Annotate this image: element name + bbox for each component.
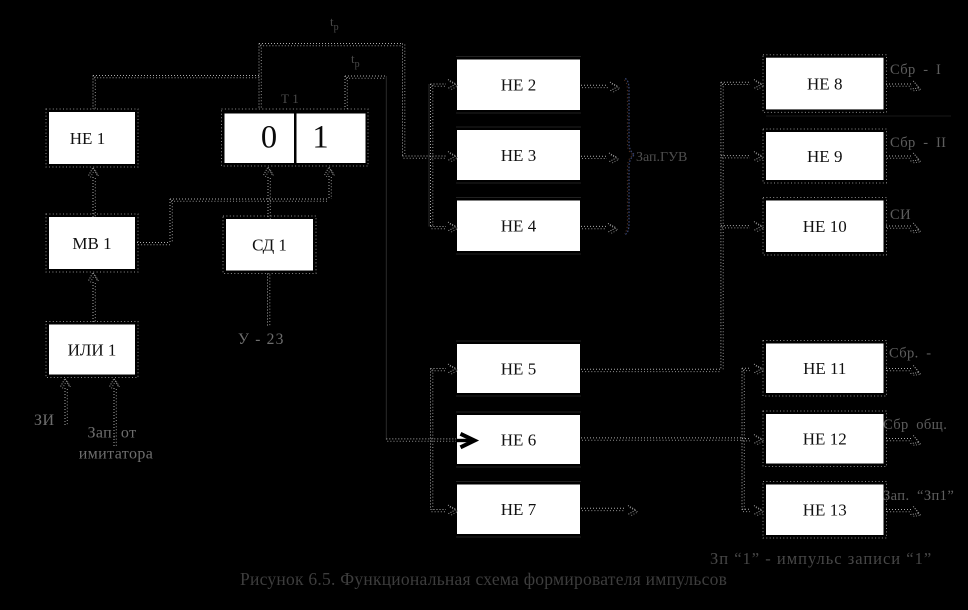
svg-text:0: 0	[261, 120, 277, 156]
arrow NE4 out	[608, 223, 618, 234]
svg-text:СД 1: СД 1	[252, 236, 287, 255]
node tv label	[330, 14, 339, 33]
wire MV1 horizontal to trigger	[170, 199, 329, 201]
wire busbar NE5-NE7	[431, 369, 433, 510]
arrow NE9 out	[910, 153, 923, 166]
block НЕ 2	[456, 57, 581, 114]
svg-text:имитатора: имитатора	[79, 446, 154, 463]
wire NE1 top riser	[93, 76, 95, 110]
svg-text:Сбр общ.: Сбр общ.	[883, 417, 947, 433]
block ИЛИ 1	[46, 322, 138, 378]
arrow NE3 out	[609, 153, 619, 164]
block НЕ 1	[46, 109, 138, 167]
wire NE12 output	[886, 439, 912, 441]
arrow into NE9	[754, 152, 764, 163]
node label 11	[889, 346, 931, 362]
wire branch to NE5	[431, 369, 447, 371]
trigger Т 1 cell 0	[222, 109, 369, 166]
svg-text:НЕ 12: НЕ 12	[803, 430, 847, 449]
arrow into NE2	[448, 80, 458, 91]
wire trigger1 top riser	[345, 76, 347, 109]
wire NE2 output	[581, 85, 608, 87]
svg-text:Т 1: Т 1	[281, 91, 299, 106]
wire MV1 out east	[137, 243, 170, 245]
wire MV1 riser	[170, 199, 172, 243]
node label 13	[883, 488, 954, 504]
block НЕ 6	[456, 412, 581, 467]
wire branch to NE4	[431, 227, 447, 229]
wire MV1 to NE1	[93, 177, 95, 217]
node U-23 label	[238, 331, 285, 348]
block НЕ 12	[763, 411, 887, 467]
arrow ZI into ILI1	[61, 379, 72, 389]
arrow imitator into ILI1	[110, 379, 121, 389]
wire into NE3	[403, 156, 447, 158]
node legend Zp1	[710, 549, 932, 568]
svg-text:НЕ 9: НЕ 9	[807, 147, 842, 166]
block НЕ 10	[763, 198, 887, 256]
wire busbar R1	[721, 82, 723, 369]
node zap ot imitatora label	[79, 425, 154, 463]
wire ZI input	[65, 388, 67, 425]
block СД 1	[223, 216, 316, 274]
block НЕ 11	[763, 341, 887, 397]
wire NE1 top link horizontal	[93, 76, 259, 78]
arrow into NE8	[754, 80, 764, 91]
svg-text:СИ: СИ	[890, 207, 911, 223]
svg-text:НЕ 3: НЕ 3	[501, 146, 536, 165]
wire tp long vertical	[385, 76, 387, 440]
block НЕ 5	[456, 341, 581, 396]
wire NE7 output	[581, 508, 624, 510]
arrow NE8 out	[910, 81, 923, 94]
wire imitator input	[114, 388, 116, 446]
wire faint line below NE8	[766, 115, 951, 117]
node label 10	[890, 207, 911, 223]
block НЕ 9	[763, 129, 887, 183]
svg-text:Зап. “Зп1”: Зап. “Зп1”	[883, 488, 954, 504]
wire tp horizontal	[345, 76, 386, 78]
wire NE11 output	[886, 369, 912, 371]
wire NE6 output to busbar R2	[581, 438, 743, 440]
wire NE3 output	[581, 156, 607, 158]
arrow into NE10	[754, 222, 764, 233]
node Zap GUV label	[636, 150, 687, 165]
wire NE13 output	[886, 510, 912, 512]
brace Zap GUV	[624, 79, 634, 235]
node ZI label	[34, 412, 55, 429]
svg-text:Зп “1” - импульс записи “1”: Зп “1” - импульс записи “1”	[710, 549, 932, 568]
arrow into NE4	[448, 222, 458, 233]
svg-text:НЕ 5: НЕ 5	[501, 359, 536, 378]
node label 8	[890, 62, 941, 78]
svg-text:Сбр. -: Сбр. -	[889, 346, 931, 362]
svg-text:МВ 1: МВ 1	[72, 234, 111, 253]
block НЕ 3	[456, 127, 581, 183]
svg-text:ИЛИ 1: ИЛИ 1	[68, 340, 117, 359]
arrow NE13 out	[910, 506, 923, 519]
arrow NE12 out	[910, 435, 923, 448]
wire branch to NE2	[431, 84, 447, 86]
node label 9	[890, 135, 946, 151]
wire branch to NE9	[721, 156, 750, 158]
svg-text:НЕ 8: НЕ 8	[807, 74, 842, 93]
block МВ 1	[46, 214, 138, 272]
wire NE8 output	[886, 84, 912, 86]
arrow into MV1 bottom	[89, 273, 100, 283]
wire branch to NE13	[742, 509, 750, 511]
wire trigger0 top riser	[259, 44, 261, 110]
wire U23 input	[268, 274, 270, 328]
arrow bold into NE6	[457, 434, 475, 448]
node caption	[240, 569, 727, 589]
arrow into trigger0 bottom	[264, 167, 275, 177]
svg-text:НЕ 6: НЕ 6	[501, 430, 536, 449]
wire NE4 output	[581, 226, 606, 228]
wire busbar R2	[742, 368, 744, 510]
svg-text:НЕ 10: НЕ 10	[803, 217, 847, 236]
svg-text:Зап.ГУВ: Зап.ГУВ	[636, 150, 687, 165]
arrow NE7 out	[628, 506, 638, 517]
block НЕ 8	[763, 55, 887, 113]
wire NE5 output to busbar R1	[581, 369, 722, 371]
svg-text:ЗИ: ЗИ	[34, 412, 55, 429]
wire NE10 output	[886, 226, 912, 228]
svg-text:НЕ 4: НЕ 4	[501, 217, 537, 236]
wire MV1 into trigger1	[329, 176, 331, 199]
wire tv down to NE3 row	[403, 44, 405, 157]
svg-text:Зап. от: Зап. от	[87, 425, 136, 442]
arrow into trigger1 bottom	[325, 167, 336, 177]
wire tp into NE6	[386, 439, 456, 441]
node label 12	[883, 417, 947, 433]
wire NE9 output	[886, 156, 912, 158]
block НЕ 13	[763, 482, 887, 539]
wire ILI1 to MV1	[93, 282, 95, 322]
node tp label	[351, 51, 360, 70]
wire branch to NE7	[431, 510, 447, 512]
arrow into NE3	[448, 152, 458, 163]
svg-text:НЕ 11: НЕ 11	[803, 359, 846, 378]
wire SD1 to trigger0	[268, 177, 270, 219]
arrow into NE13	[754, 506, 764, 517]
svg-text:НЕ 13: НЕ 13	[803, 501, 847, 520]
wire branch to NE10	[721, 226, 750, 228]
svg-text:Рисунок 6.5. Функциональная сх: Рисунок 6.5. Функциональная схема формир…	[240, 569, 727, 589]
svg-text:НЕ 7: НЕ 7	[501, 500, 537, 519]
svg-text:НЕ 2: НЕ 2	[501, 76, 536, 95]
arrow NE10 out	[910, 223, 923, 236]
block НЕ 7	[456, 482, 581, 538]
arrow into NE11	[754, 364, 764, 375]
wire branch to NE12	[742, 439, 750, 441]
svg-text:Сбр - II: Сбр - II	[890, 135, 946, 151]
svg-text:У - 23: У - 23	[238, 331, 285, 348]
svg-text:Сбр - I: Сбр - I	[890, 62, 941, 78]
block НЕ 4	[456, 198, 581, 255]
svg-text:1: 1	[312, 120, 328, 156]
arrow NE11 out	[910, 365, 923, 378]
wire tv top horizontal	[259, 44, 403, 46]
trigger Т 1 cell 1	[297, 114, 366, 164]
arrow into NE12	[754, 435, 764, 446]
wire busbar NE2-NE4	[431, 84, 433, 227]
arrow into NE7	[448, 505, 458, 516]
svg-text:НЕ 1: НЕ 1	[70, 129, 105, 148]
wire branch to NE8	[721, 82, 750, 84]
arrow into NE1 bottom	[89, 168, 100, 178]
wire branch to NE11	[742, 368, 750, 370]
arrow into NE5	[448, 364, 458, 375]
arrow NE2 out	[610, 82, 620, 93]
